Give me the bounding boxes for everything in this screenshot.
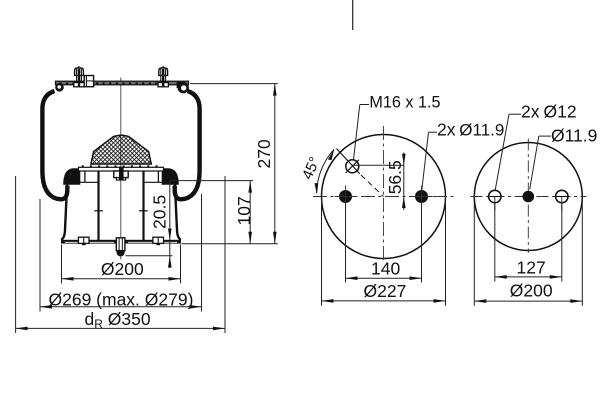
center hole (filled) xyxy=(523,191,535,203)
svg-text:Ø200: Ø200 xyxy=(101,259,144,279)
central stud xyxy=(116,238,125,251)
center lines xyxy=(383,126,385,261)
svg-text:2x: 2x xyxy=(437,119,456,139)
20.5 outside arrows xyxy=(168,229,172,241)
svg-text:Ø200: Ø200 xyxy=(510,281,553,301)
leader 2x dia12 xyxy=(509,113,521,115)
M16 air fitting symbol xyxy=(346,160,359,173)
svg-text:Ø227: Ø227 xyxy=(364,281,407,301)
svg-text:M16 x 1.5: M16 x 1.5 xyxy=(369,93,440,111)
frame remnant line top center xyxy=(352,0,354,30)
45deg arc xyxy=(317,149,334,193)
piston inner walls xyxy=(97,171,99,240)
rubber bumper cone xyxy=(91,135,151,164)
dim dia200 xyxy=(62,278,181,280)
leader 2x11.9 xyxy=(422,132,429,190)
piston bottom plate xyxy=(61,240,181,244)
ext 20.5 bottom xyxy=(126,255,173,257)
svg-text:107: 107 xyxy=(234,196,254,225)
nut under bumper plate xyxy=(114,171,128,178)
dim 107 xyxy=(249,181,251,244)
circle xyxy=(322,135,446,259)
270 xyxy=(273,84,277,96)
svg-text:Ø11.9: Ø11.9 xyxy=(551,125,597,145)
107 xyxy=(248,181,252,193)
bolt left xyxy=(74,66,84,87)
bolt hole right (filled) xyxy=(415,190,428,203)
ticks on inner walls xyxy=(94,210,103,212)
rolled edge left xyxy=(55,83,64,92)
dim 140 xyxy=(345,204,347,283)
dR350 xyxy=(16,327,28,331)
56.5 dimension xyxy=(352,164,404,166)
bolt hole left (filled) xyxy=(339,190,352,203)
ext 270 top xyxy=(190,83,278,85)
plate serration dots xyxy=(59,82,157,84)
dim dia227 xyxy=(321,197,323,306)
center line xyxy=(120,78,122,260)
bead blob left xyxy=(63,168,80,185)
rolled edge right xyxy=(177,82,184,88)
svg-text:2x: 2x xyxy=(521,102,540,122)
svg-text:56.5: 56.5 xyxy=(385,160,405,194)
bumper plate xyxy=(79,167,164,171)
piston outer wall right xyxy=(175,183,181,240)
dashed 45deg line to center xyxy=(361,175,384,197)
svg-text:20.5: 20.5 xyxy=(149,195,169,229)
svg-text:Ø11.9: Ø11.9 xyxy=(459,120,504,139)
bead blob right xyxy=(162,168,179,185)
svg-text:270: 270 xyxy=(254,139,274,168)
dim 270 xyxy=(274,84,276,244)
dim dR350 xyxy=(16,327,225,329)
dia269 xyxy=(40,305,52,309)
ext dia269 xyxy=(39,199,41,312)
ext dia200 xyxy=(61,245,63,284)
top plate band xyxy=(56,81,189,85)
hole left with T-mark xyxy=(489,190,501,202)
dim 127 xyxy=(494,204,496,282)
svg-text:127: 127 xyxy=(517,258,546,278)
dim 20.5 xyxy=(169,181,171,240)
ext 107 top xyxy=(170,180,253,182)
bellows outline right xyxy=(175,91,200,199)
bellows outline left xyxy=(42,91,67,199)
leader dia11.9 xyxy=(539,135,551,137)
arrows left view xyxy=(16,84,277,331)
dia200 xyxy=(62,277,74,281)
fitting block next to left bolt xyxy=(84,76,93,87)
leader M16 xyxy=(354,105,360,160)
bolt head right on bottom plate xyxy=(153,237,164,243)
piston outer wall left xyxy=(61,183,67,240)
ext dR350 xyxy=(15,176,17,333)
svg-text:140: 140 xyxy=(371,259,400,279)
bolt right xyxy=(158,66,168,87)
dim dia200 right xyxy=(473,197,475,306)
hole right with T-mark xyxy=(556,190,568,202)
dim dia269 xyxy=(40,306,202,308)
bolt head left on bottom plate xyxy=(78,237,89,243)
svg-text:Ø12: Ø12 xyxy=(544,102,577,122)
svg-text:Ø269 (max. Ø279): Ø269 (max. Ø279) xyxy=(49,289,194,309)
ext bottom shared xyxy=(182,243,278,245)
